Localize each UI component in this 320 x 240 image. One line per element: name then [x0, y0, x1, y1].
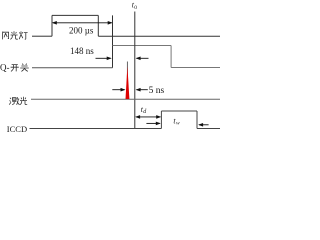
灯 — [19, 31, 27, 39]
flashlamp falling edge — [97, 15, 99, 36]
148ns arrow right-pointing — [96, 57, 111, 59]
t0 reference line — [134, 12, 136, 129]
ICCD gate falling edge — [196, 111, 198, 129]
激 — [9, 97, 19, 105]
5ns arrow right-pointing — [112, 89, 124, 91]
svg-text:Q-: Q- — [0, 63, 10, 73]
label flashlamp (闪光灯) — [3, 31, 28, 39]
Q-switch baseline left — [32, 67, 113, 69]
svg-text:ICCD: ICCD — [7, 124, 27, 134]
148ns arrow left-pointing — [137, 57, 149, 59]
ICCD gate rising edge — [160, 111, 162, 129]
开 — [11, 65, 19, 72]
关 — [20, 64, 29, 72]
Q-switch high level — [113, 45, 172, 47]
光 — [20, 97, 27, 105]
laser pulse red spike — [126, 66, 130, 99]
5ns arrow left-pointing — [137, 89, 148, 91]
闪 — [3, 32, 9, 40]
Q-switch falling edge — [170, 46, 172, 68]
光 — [10, 31, 17, 39]
flashlamp rising edge — [51, 15, 53, 36]
svg-text:200 µs: 200 µs — [69, 25, 94, 35]
svg-text:5 ns: 5 ns — [149, 86, 165, 96]
tw arrow right-pointing — [146, 122, 159, 124]
laser baseline — [31, 98, 220, 100]
tw arrow left-pointing — [199, 124, 209, 126]
flashlamp pulse top — [52, 14, 98, 16]
Q-switch baseline right — [171, 67, 220, 69]
svg-text:0: 0 — [134, 5, 137, 11]
label laser (激光) — [9, 97, 27, 105]
flashlamp leader dash — [32, 35, 38, 37]
flashlamp baseline right — [98, 35, 220, 37]
svg-text:w: w — [176, 121, 180, 127]
td measure arrow — [136, 116, 160, 118]
ICCD gate top — [161, 110, 197, 112]
Q-switch trigger reference line — [112, 15, 114, 67]
ICCD baseline right — [197, 128, 220, 130]
laser pulse spike tip line — [126, 62, 128, 81]
flashlamp baseline left — [38, 35, 52, 37]
svg-text:148 ns: 148 ns — [70, 46, 94, 56]
200us measure arrow — [53, 22, 112, 24]
ICCD baseline left — [30, 128, 162, 130]
